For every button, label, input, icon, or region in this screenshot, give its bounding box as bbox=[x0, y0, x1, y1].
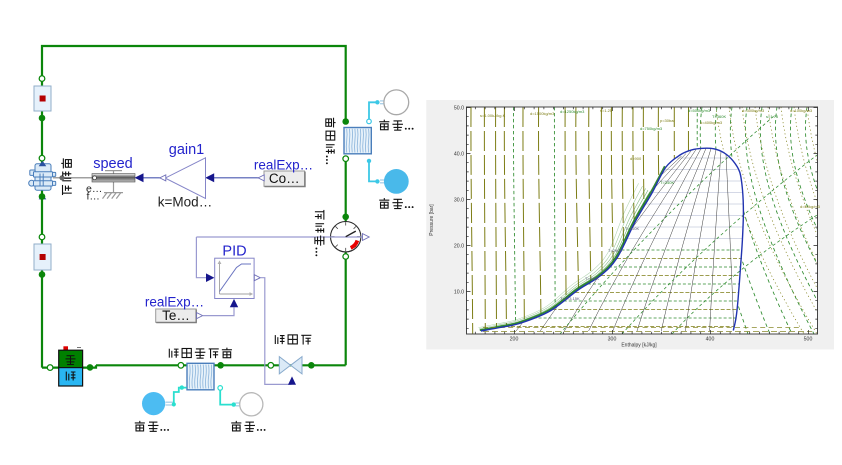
svg-text:20.0: 20.0 bbox=[454, 243, 464, 249]
svg-text:d=1500kg/m3: d=1500kg/m3 bbox=[530, 111, 555, 116]
svg-text:200: 200 bbox=[510, 337, 519, 343]
svg-text:s=1.75: s=1.75 bbox=[766, 114, 779, 119]
svg-text:T=300K: T=300K bbox=[625, 226, 639, 231]
svg-text:d=300kg/m3: d=300kg/m3 bbox=[742, 108, 765, 113]
svg-text:f…: f… bbox=[87, 191, 100, 203]
svg-text:10.0: 10.0 bbox=[454, 289, 464, 295]
svg-text:k=Mod…: k=Mod… bbox=[158, 195, 212, 210]
svg-text:d=900: d=900 bbox=[630, 156, 642, 161]
svg-text:Te…: Te… bbox=[162, 308, 190, 323]
svg-text:gain1: gain1 bbox=[169, 142, 204, 158]
svg-text:p=30bar: p=30bar bbox=[660, 118, 675, 123]
svg-text:d=750kg/m3: d=750kg/m3 bbox=[640, 126, 663, 131]
svg-text:T=290K: T=290K bbox=[608, 248, 622, 253]
svg-text:300: 300 bbox=[608, 337, 617, 343]
svg-text:PID: PID bbox=[222, 243, 246, 259]
svg-text:40.0: 40.0 bbox=[454, 151, 464, 157]
svg-text:T=340K: T=340K bbox=[660, 180, 674, 185]
svg-text:Co…: Co… bbox=[269, 171, 300, 186]
svg-text:30.0: 30.0 bbox=[454, 197, 464, 203]
svg-text:realExp…: realExp… bbox=[254, 157, 313, 172]
svg-text:500: 500 bbox=[804, 337, 813, 343]
svg-text:s=1.25: s=1.25 bbox=[600, 108, 613, 113]
svg-text:d=50kg/m3: d=50kg/m3 bbox=[800, 204, 821, 209]
svg-text:T=280K: T=280K bbox=[585, 276, 599, 281]
svg-text:d=100kg/m3: d=100kg/m3 bbox=[790, 108, 813, 113]
svg-text:50.0: 50.0 bbox=[454, 105, 464, 111]
svg-text:400: 400 bbox=[706, 337, 715, 343]
svg-text:d=1250kg/m3: d=1250kg/m3 bbox=[560, 109, 585, 114]
svg-text:d=500kg/m3: d=500kg/m3 bbox=[688, 108, 711, 113]
svg-text:Pressure [bar]: Pressure [bar] bbox=[429, 204, 435, 236]
svg-text:speed: speed bbox=[93, 156, 133, 172]
svg-text:s=1.00kJ/kg.K: s=1.00kJ/kg.K bbox=[480, 113, 506, 118]
svg-text:d=400kg/m3: d=400kg/m3 bbox=[700, 120, 723, 125]
svg-text:Enthalpy [kJ/kg]: Enthalpy [kJ/kg] bbox=[621, 342, 657, 348]
svg-text:T=360K: T=360K bbox=[712, 114, 726, 119]
svg-text:T=273.15K: T=273.15K bbox=[560, 296, 580, 301]
